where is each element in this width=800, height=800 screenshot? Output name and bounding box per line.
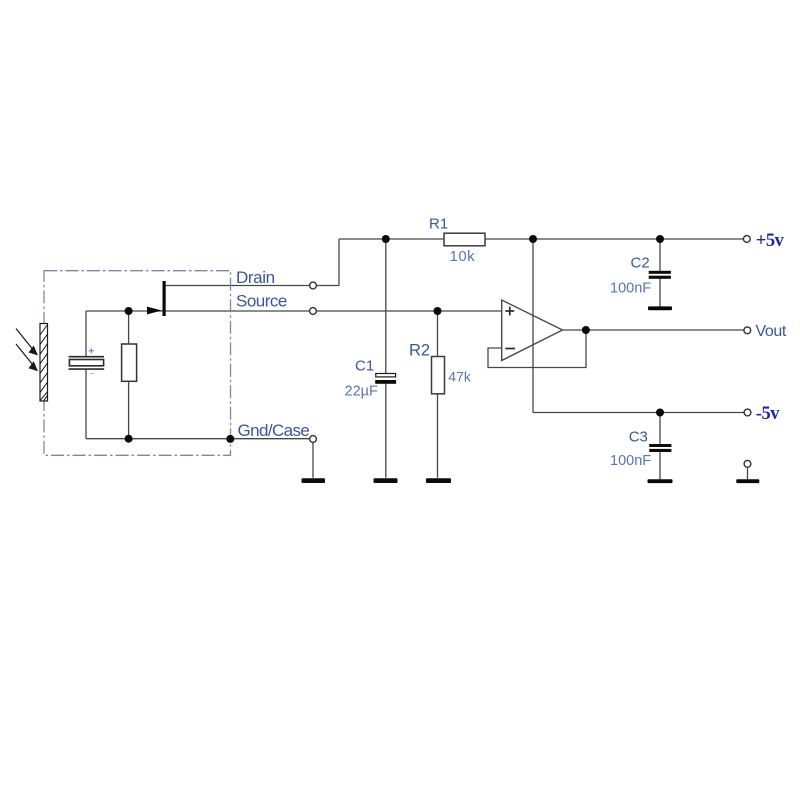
svg-text:10k: 10k: [450, 248, 476, 265]
svg-text:47k: 47k: [448, 368, 472, 384]
svg-text:R1: R1: [429, 215, 448, 232]
svg-text:100nF: 100nF: [610, 281, 651, 297]
svg-text:-5v: -5v: [756, 404, 780, 424]
svg-text:R2: R2: [409, 341, 430, 359]
svg-text:C2: C2: [631, 255, 650, 272]
svg-text:100nF: 100nF: [610, 453, 651, 469]
svg-text:C1: C1: [355, 357, 374, 374]
svg-text:+5v: +5v: [756, 231, 785, 251]
svg-text:Gnd/Case: Gnd/Case: [238, 421, 310, 440]
svg-text:22µF: 22µF: [345, 384, 378, 400]
svg-text:-: -: [91, 368, 95, 380]
svg-text:C3: C3: [629, 428, 648, 445]
svg-text:Source: Source: [236, 292, 287, 311]
svg-text:Vout: Vout: [756, 323, 787, 340]
svg-text:+: +: [88, 346, 94, 358]
svg-text:Drain: Drain: [236, 268, 275, 287]
